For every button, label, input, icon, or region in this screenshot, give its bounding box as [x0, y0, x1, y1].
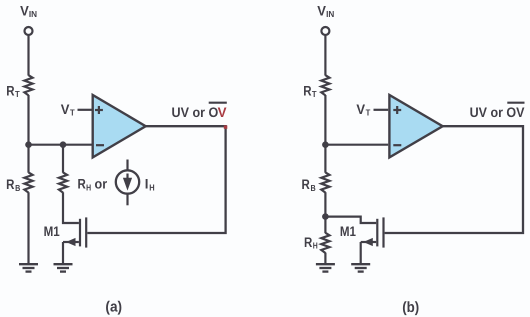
node VIN (a) terminal: [20, 3, 37, 35]
wire node to minus input (a): [29, 144, 92, 146]
svg-text:T: T: [70, 107, 75, 117]
wire RH to ground (b): [324, 253, 326, 264]
svg-text:T: T: [312, 89, 317, 99]
svg-text:R: R: [6, 83, 14, 98]
label UV or OV-bar (b): [470, 103, 526, 120]
ground under M1 (b): [351, 264, 370, 271]
ground under RH (b): [316, 264, 335, 271]
svg-text:M1: M1: [44, 224, 60, 239]
junction dot RH branch (a): [60, 141, 67, 148]
junction dot at divider node (a): [25, 141, 32, 148]
ground under M1 (a): [54, 264, 73, 271]
wire VT to plus input (b): [374, 109, 389, 111]
transistor M1 (b): [340, 217, 384, 247]
node VIN (b) terminal: [317, 3, 334, 35]
wire RB to RH node (b): [324, 192, 326, 233]
svg-text:H: H: [86, 182, 91, 192]
red corner artifact (a): [224, 125, 228, 128]
svg-text:I: I: [145, 177, 149, 192]
transistor M1 (a): [44, 217, 87, 247]
svg-text:H: H: [149, 183, 154, 193]
svg-text:T: T: [15, 89, 20, 99]
ground under RB (a): [19, 264, 38, 271]
caption (a): [105, 300, 122, 316]
label VT (b): [356, 102, 370, 118]
op-amp comparator (b): [389, 95, 442, 157]
svg-text:R: R: [303, 83, 311, 98]
wire RT to node (a): [27, 95, 29, 173]
wire RT to node (b): [324, 95, 326, 173]
svg-text:B: B: [311, 183, 316, 193]
svg-text:T: T: [366, 107, 371, 117]
junction dot at divider node (b): [322, 141, 329, 148]
svg-text:R: R: [304, 235, 312, 250]
resistor RB (b): [302, 172, 330, 192]
svg-text:(b): (b): [402, 300, 419, 316]
resistor RB (a): [6, 172, 32, 192]
wire RB to ground (a): [27, 192, 29, 264]
junction dot RB-RH (b): [322, 213, 329, 220]
wire output feedback net (a): [87, 126, 225, 233]
op-amp comparator (a): [93, 95, 146, 157]
wire M1 source to ground (b): [360, 242, 362, 264]
svg-text:or: or: [95, 177, 108, 192]
wire VT to plus input (a): [78, 109, 92, 111]
svg-text:UV or O: UV or O: [172, 105, 219, 120]
svg-text:IN: IN: [326, 9, 334, 19]
resistor RH (a): [59, 172, 108, 192]
wire node to minus input (b): [325, 144, 388, 146]
svg-text:B: B: [15, 183, 20, 193]
svg-text:V: V: [218, 105, 228, 120]
resistor RT (b): [303, 75, 329, 99]
svg-text:H: H: [313, 241, 318, 251]
svg-text:(a): (a): [105, 300, 122, 316]
svg-text:R: R: [6, 177, 14, 192]
svg-text:R: R: [302, 177, 310, 192]
caption (b): [402, 300, 419, 316]
resistor RT (a): [6, 75, 32, 99]
wire RH to M1 drain (a): [63, 192, 79, 223]
wire node to M1 drain (b): [325, 217, 376, 223]
label VT (a): [61, 102, 75, 118]
wire VIN to RT (a): [27, 35, 29, 75]
wire output feedback net (b): [385, 126, 523, 233]
current source IH (a): [116, 160, 155, 206]
label UV or OV-bar (a): [172, 103, 228, 120]
svg-text:V: V: [61, 102, 70, 117]
svg-text:R: R: [78, 177, 86, 192]
wire node to RH (a): [62, 145, 64, 173]
resistor RH (b): [304, 233, 330, 253]
svg-text:M1: M1: [340, 224, 356, 239]
svg-text:V: V: [356, 102, 365, 117]
svg-text:UV or OV: UV or OV: [470, 105, 526, 120]
wire VIN to RT (b): [324, 35, 326, 75]
wire M1 source to ground (a): [62, 242, 64, 264]
svg-text:IN: IN: [29, 9, 37, 19]
